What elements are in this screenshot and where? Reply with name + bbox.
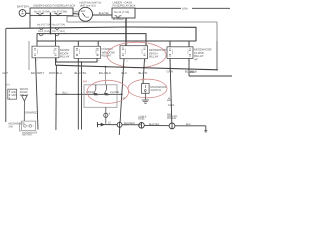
wire label BLU/WHT [31,72,44,76]
wire battery to fuse box [26,12,30,14]
wire box2 right pin top [97,41,99,46]
BLK/YEL label [99,12,110,15]
svg-text:No.47 (50A): No.47 (50A) [53,10,68,13]
svg-text:4P: 4P [194,58,198,62]
svg-text:No.32 (7.5A): No.32 (7.5A) [114,11,129,14]
small box label [151,86,167,92]
svg-text:GRN: GRN [182,8,188,11]
diode label [20,88,29,97]
junction [50,27,52,29]
fuse label row2 right [53,30,65,33]
svg-text:BLU/R: BLU/R [139,72,148,76]
wire box1 bottom to bus [56,58,97,62]
bus line inside relay box [37,40,196,42]
circuit breaker box [8,89,17,99]
breaker side note [9,122,25,128]
fuse symbol rail B right [55,34,59,36]
wire rail B left drop [36,34,38,47]
wire box4 left pin down [170,58,172,123]
svg-text:CLOSE: CLOSE [194,51,204,55]
wire box1 top pin through [55,58,57,65]
ground connector 2 [169,123,207,133]
bottom box caption [22,131,37,136]
BLK label motor line [186,123,191,126]
red tag A4 [83,80,87,84]
wire left main drop [5,28,7,122]
wire faint drop right upper [216,22,218,41]
pin tick marks on bus [36,44,189,62]
wire label BLK [190,71,196,74]
svg-text:G401: G401 [168,104,175,107]
svg-text:ROOF: ROOF [60,52,69,56]
battery label [17,5,29,8]
junction box4 left rail [169,68,171,70]
under-hood box title [33,4,75,7]
fuse No.41 symbol [37,13,44,15]
pin label above breaker box [6,84,11,87]
junction rail B x50 [50,33,52,35]
switch contact open [93,85,98,96]
svg-text:UNDER - DASH: UNDER - DASH [113,1,133,4]
connector pin text [109,112,111,115]
switch contact close [104,85,109,96]
wire WHT/BLU column down [55,65,58,130]
box2 label [102,48,115,58]
svg-text:RELAY: RELAY [102,54,112,58]
G401 text [168,104,175,107]
svg-text:(BAT and IG1): (BAT and IG1) [80,4,96,7]
wire box2 pins top [77,41,79,46]
svg-text:MOON: MOON [20,88,28,91]
moonroof relay box1 [32,46,59,58]
fuse No.47 label [53,10,68,13]
under-dash box title [113,1,136,7]
motor feed line [98,122,141,128]
wire box4 left pin top [169,41,171,47]
wire label BLU/YEL [75,72,87,76]
breaker text [11,91,17,97]
svg-text:BLK: BLK [190,71,196,74]
ground below small box [142,93,149,103]
svg-text:BLK/YEL: BLK/YEL [99,12,110,15]
junction box3 right rail [143,67,145,69]
fuse label row1 left [37,23,51,26]
svg-text:GRN: GRN [167,70,173,74]
junction center vertical [121,93,123,95]
junction pair cross [78,94,80,96]
under-dash fuse/relay box [112,8,135,18]
svg-text:MOTOR: MOTOR [22,133,32,136]
fuse symbol rail A left [39,27,43,29]
svg-text:MOONROOF: MOONROOF [9,122,25,125]
fuse No.32 symbol [115,16,122,18]
wire box4 right pin down [188,58,190,76]
fuse No.41 label [34,10,50,13]
GRN label [25,111,38,114]
svg-text:BLK/YEL: BLK/YEL [149,123,160,126]
left branch column [5,28,7,122]
wire switch drop left pair a [77,58,79,129]
wire WHT to ignition switch [73,13,80,16]
moonroof open relay box3 [120,46,148,59]
svg-text:BLK: BLK [186,123,191,126]
ignition switch [79,7,93,21]
svg-text:FUSE/RELAY BOX: FUSE/RELAY BOX [113,4,136,7]
svg-text:No.7 (10A): No.7 (10A) [53,30,65,33]
svg-text:BLU/YEL: BLU/YEL [75,72,87,76]
junction bus x126 [125,40,127,42]
label BLU/BLK motor [124,122,135,125]
svg-text:BAT: BAT [81,10,86,13]
pin 12 label [123,97,126,100]
svg-text:SWITCH: SWITCH [151,89,162,92]
junction rail A x126 [125,26,127,28]
diode [22,96,27,122]
svg-text:MOONROOF: MOONROOF [151,86,167,89]
WHT label on left wire [2,72,8,75]
svg-text:15: 15 [108,121,111,124]
fuse No.32 label [114,11,129,14]
wire label WHT/BLU [49,72,62,76]
svg-text:BLU/BLK: BLU/BLK [99,72,111,76]
outer box left edge [28,41,30,70]
BLU/RED label under box [113,18,124,21]
wire faint drop right lower [216,41,218,70]
svg-text:MOON: MOON [60,49,69,53]
moonroof switch small box [142,84,150,94]
svg-text:A/B: A/B [11,91,15,94]
svg-text:No.41 (100A): No.41 (100A) [34,10,50,13]
power window relay box2 [74,46,101,58]
BLK/YEL small label [149,123,160,126]
bottom-left switch box [20,121,36,131]
moonroof close relay box4 [167,47,193,59]
rail ACC faint [67,21,217,23]
wire switch to rail [105,67,107,85]
svg-text:SW: SW [9,125,14,128]
svg-text:BLU: BLU [122,72,128,75]
svg-text:MOONROOF: MOONROOF [194,48,212,52]
motor line label [108,121,111,124]
CLOSE label [110,91,119,94]
junction y62 [81,61,83,63]
box3 label [149,49,167,59]
wire box3 right pin down [143,59,145,84]
svg-text:RELAY: RELAY [60,55,70,59]
wire switch drop left pair b [81,62,83,130]
svg-text:WHT: WHT [2,72,8,75]
svg-text:BLU/WHT: BLU/WHT [31,72,44,76]
BAT terminal label [81,10,86,13]
ignition switch title [80,1,102,7]
wire box4 right pin top [188,41,190,47]
cable reel label [138,115,146,120]
svg-text:REEL: REEL [138,117,145,120]
junction switch rail [105,66,107,68]
wire to moonroof control unit top right [135,7,181,9]
moonroof switch assembly box [84,85,117,108]
wire under-dash drop [125,18,127,46]
G ground connector label [167,113,178,120]
svg-text:No.15 (7.5A): No.15 (7.5A) [37,23,51,26]
wire label GRN [167,70,173,74]
svg-text:WIRING: WIRING [167,117,177,120]
wire label BLU/GRN [139,72,148,76]
box4 label [194,48,212,61]
svg-text:RELAY: RELAY [194,55,204,59]
red circle E1 around box3 [107,42,166,68]
red ellipse E2 [87,80,129,103]
svg-text:BATTERY: BATTERY [17,5,29,8]
junction rail end [216,69,218,71]
IG1 terminal label [85,16,89,19]
wire label BLK box4 [185,70,197,74]
svg-text:BLU: BLU [63,92,68,95]
junction switch feed [55,93,57,95]
BLU label on switch common [63,92,68,95]
svg-text:No.9 (7.5A): No.9 (7.5A) [52,23,65,26]
wire label BLU/BLK [99,72,111,76]
svg-text:No.5 (10A): No.5 (10A) [38,30,50,33]
wire BLK right [189,75,232,77]
connector on switch drop [104,107,108,124]
rail A hot at all times [6,27,196,41]
box1 label [60,49,70,59]
G401 marker triangle [167,98,170,101]
svg-text:BLU/RED: BLU/RED [113,18,124,21]
wire center vertical long [119,59,124,135]
svg-text:BLU/BLK: BLU/BLK [124,122,135,125]
WHT label [74,10,80,13]
fuse symbol rail B left [39,34,43,36]
svg-text:SRS: SRS [11,94,17,97]
svg-text:A4: A4 [83,80,87,84]
svg-text:OPEN: OPEN [149,52,158,56]
battery [19,10,26,17]
svg-text:RELAY: RELAY [149,55,159,59]
wire fuse box drop [50,13,52,34]
red pin 1 [142,78,144,81]
GRN inline label [182,8,188,11]
svg-text:WHT/BLU: WHT/BLU [49,72,62,76]
wire battery drop [29,13,31,27]
fuse symbol rail A right [55,27,59,29]
svg-text:IG1: IG1 [85,16,89,19]
junction center rail [123,66,125,68]
svg-text:ROOF: ROOF [20,91,28,94]
wire box1 left pin down [36,58,39,130]
svg-text:IGNITION SWITCH: IGNITION SWITCH [80,1,102,4]
ignition internal contact [83,13,86,17]
wire label 12 [122,72,128,75]
fuse No.47 symbol [55,13,62,15]
wire ACC step faint [67,16,80,22]
wire to switch common [56,93,122,95]
under-hood fuse/relay box [30,8,73,16]
wire continuation after label [192,7,230,9]
wire box1 top left [55,34,57,47]
rail B hot in ON [37,34,146,46]
red ellipse E3 [128,79,167,98]
svg-text:12: 12 [123,97,126,100]
fuse label row2 left [38,30,50,33]
ground rail lower [56,65,218,70]
svg-text:CLOSE: CLOSE [110,91,119,94]
fuse label row1 right [52,23,65,26]
svg-text:A21: A21 [6,84,11,87]
wire BLK/YEL [92,14,112,16]
OPEN label [86,91,94,94]
svg-text:GRN/RED: GRN/RED [25,111,38,114]
cable reel connector [139,122,170,129]
svg-text:UNDER-HOOD FUSE/RELAY BOX: UNDER-HOOD FUSE/RELAY BOX [33,4,75,7]
